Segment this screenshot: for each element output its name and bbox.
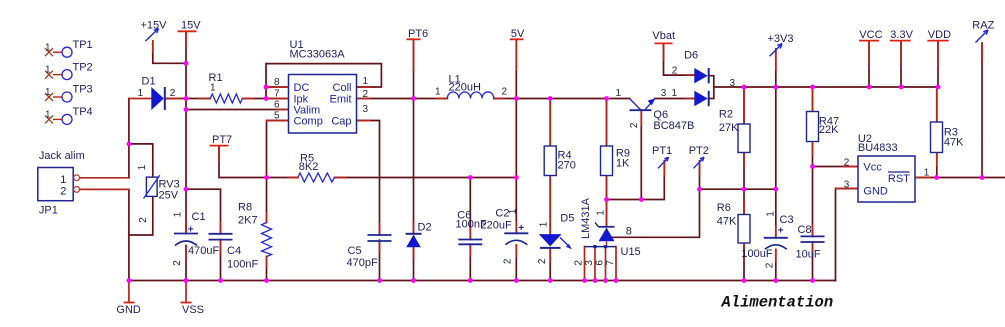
svg-text:BU4833: BU4833 (858, 142, 898, 154)
svg-text:D5: D5 (560, 213, 574, 225)
svg-text:1: 1 (45, 42, 51, 53)
svg-text:2: 2 (172, 260, 183, 266)
svg-text:JP1: JP1 (39, 205, 58, 217)
svg-text:Vbat: Vbat (652, 30, 675, 42)
svg-text:27K: 27K (719, 122, 739, 134)
svg-text:LM431A: LM431A (580, 197, 592, 239)
svg-text:Emit: Emit (330, 93, 352, 105)
svg-text:1: 1 (45, 87, 51, 98)
svg-text:R2: R2 (719, 109, 733, 121)
svg-text:TP2: TP2 (73, 61, 93, 73)
svg-text:100nF: 100nF (227, 258, 258, 270)
svg-text:2: 2 (138, 217, 149, 223)
svg-text:1: 1 (363, 76, 369, 87)
svg-text:Cap: Cap (331, 115, 351, 127)
svg-text:2: 2 (170, 88, 176, 99)
svg-text:RST: RST (888, 173, 910, 185)
svg-text:2: 2 (629, 122, 640, 128)
svg-text:1: 1 (924, 168, 930, 179)
svg-text:DC: DC (294, 82, 310, 94)
svg-text:TP1: TP1 (73, 39, 93, 51)
svg-text:6: 6 (594, 260, 605, 266)
svg-text:7: 7 (274, 89, 280, 100)
svg-text:Jack alim: Jack alim (39, 150, 85, 162)
svg-text:PT2: PT2 (689, 145, 709, 157)
svg-text:47K: 47K (717, 215, 737, 227)
svg-text:Alimentation: Alimentation (721, 294, 834, 312)
svg-text:2: 2 (537, 258, 548, 264)
svg-text:1: 1 (616, 88, 622, 99)
svg-text:7: 7 (605, 260, 616, 266)
svg-text:R6: R6 (717, 202, 731, 214)
svg-text:25V: 25V (159, 189, 179, 201)
svg-text:U15: U15 (621, 246, 641, 258)
svg-text:3: 3 (661, 88, 667, 99)
svg-text:D6: D6 (684, 50, 698, 62)
svg-text:TP4: TP4 (73, 106, 93, 118)
svg-text:2K7: 2K7 (238, 215, 258, 227)
svg-text:+: + (188, 225, 194, 236)
svg-text:1: 1 (672, 88, 678, 99)
svg-text:MC33063A: MC33063A (290, 49, 346, 61)
svg-text:1K: 1K (616, 157, 630, 169)
svg-text:C4: C4 (227, 245, 241, 257)
svg-text:2: 2 (672, 66, 678, 77)
svg-text:+: + (518, 223, 524, 234)
svg-text:5: 5 (274, 111, 280, 122)
svg-text:3: 3 (363, 104, 369, 115)
svg-text:1: 1 (45, 110, 51, 121)
svg-text:GND: GND (863, 185, 888, 197)
svg-text:3: 3 (844, 179, 850, 190)
svg-text:100uF: 100uF (741, 248, 772, 260)
svg-text:+: + (778, 225, 784, 236)
svg-text:C3: C3 (780, 214, 794, 226)
svg-text:2: 2 (844, 158, 850, 169)
svg-text:TP3: TP3 (73, 84, 93, 96)
svg-text:3: 3 (730, 78, 736, 89)
svg-text:2: 2 (573, 260, 584, 266)
svg-text:220uH: 220uH (449, 82, 481, 94)
svg-text:D1: D1 (142, 76, 156, 88)
svg-text:C8: C8 (798, 224, 812, 236)
svg-text:3.3V: 3.3V (890, 29, 913, 41)
svg-text:1: 1 (173, 211, 184, 217)
svg-text:PT6: PT6 (408, 28, 428, 40)
svg-text:2: 2 (60, 186, 66, 198)
svg-text:1: 1 (210, 83, 216, 94)
svg-text:PT1: PT1 (652, 145, 672, 157)
svg-text:GND: GND (116, 304, 140, 316)
svg-text:1: 1 (765, 211, 776, 217)
svg-text:1: 1 (539, 221, 550, 227)
svg-text:5V: 5V (511, 28, 525, 40)
svg-text:8K2: 8K2 (299, 161, 319, 173)
svg-text:2: 2 (502, 87, 508, 98)
svg-text:1: 1 (508, 208, 519, 214)
svg-text:1: 1 (60, 174, 66, 186)
svg-text:Comp: Comp (294, 115, 323, 127)
svg-text:R8: R8 (238, 202, 252, 214)
svg-text:15V: 15V (181, 19, 201, 31)
svg-text:VSS: VSS (182, 304, 204, 316)
svg-text:RAZ: RAZ (972, 19, 994, 31)
svg-text:2: 2 (363, 89, 369, 100)
svg-text:Coll: Coll (333, 82, 352, 94)
svg-text:+3V3: +3V3 (768, 33, 794, 45)
svg-text:270: 270 (558, 160, 576, 172)
svg-text:C5: C5 (348, 245, 362, 257)
svg-text:D2: D2 (418, 222, 432, 234)
svg-text:8: 8 (626, 225, 632, 237)
svg-text:2: 2 (503, 258, 514, 264)
svg-text:47K: 47K (944, 137, 964, 149)
svg-text:BC847B: BC847B (653, 120, 694, 132)
svg-text:+15V: +15V (141, 19, 168, 31)
svg-text:8: 8 (274, 77, 280, 88)
svg-text:PT7: PT7 (212, 134, 232, 146)
svg-text:1: 1 (137, 164, 148, 170)
svg-text:1: 1 (138, 88, 144, 99)
svg-text:Vcc: Vcc (863, 162, 882, 174)
svg-text:10uF: 10uF (796, 248, 821, 260)
svg-text:220uF: 220uF (481, 219, 512, 231)
svg-text:VDD: VDD (928, 29, 951, 41)
svg-text:3: 3 (584, 260, 595, 266)
svg-text:2: 2 (764, 262, 775, 268)
svg-text:470uF: 470uF (188, 245, 219, 257)
svg-text:6: 6 (274, 100, 280, 111)
svg-text:C1: C1 (192, 211, 206, 223)
svg-text:470pF: 470pF (347, 257, 378, 269)
svg-text:1: 1 (45, 65, 51, 76)
svg-text:1: 1 (435, 87, 441, 98)
svg-text:22K: 22K (819, 124, 839, 136)
svg-text:1: 1 (595, 210, 606, 216)
svg-text:VCC: VCC (859, 29, 882, 41)
